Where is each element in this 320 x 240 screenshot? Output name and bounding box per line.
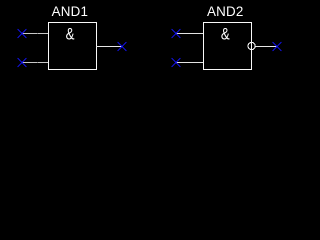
wire AND2 input A bbox=[176, 33, 203, 35]
wire AND2 input B bbox=[176, 62, 203, 64]
svg-text:AND2: AND2 bbox=[207, 4, 244, 19]
inversion bubble on AND2 output bbox=[248, 42, 255, 49]
node AND1 output terminal bbox=[118, 42, 127, 51]
node AND1 input B terminal bbox=[18, 58, 27, 67]
svg-text:&: & bbox=[221, 25, 230, 44]
wire AND1 output bbox=[96, 46, 122, 48]
value label & (AND1) bbox=[66, 25, 75, 44]
wire AND1 input B bbox=[22, 62, 48, 64]
wire AND2 output bbox=[255, 46, 277, 48]
value label & (AND2) bbox=[221, 25, 230, 44]
node AND1 input A terminal bbox=[18, 29, 27, 38]
nand-gate U2 body (AND2) bbox=[204, 23, 252, 70]
node AND2 output terminal bbox=[273, 42, 282, 51]
node AND2 input A terminal bbox=[172, 29, 181, 38]
svg-text:&: & bbox=[66, 25, 75, 44]
svg-text:AND1: AND1 bbox=[52, 4, 89, 19]
node AND2 input B terminal bbox=[172, 58, 181, 67]
wire AND1 input A bbox=[22, 33, 48, 35]
and-gate U1 body (AND1) bbox=[49, 23, 97, 70]
